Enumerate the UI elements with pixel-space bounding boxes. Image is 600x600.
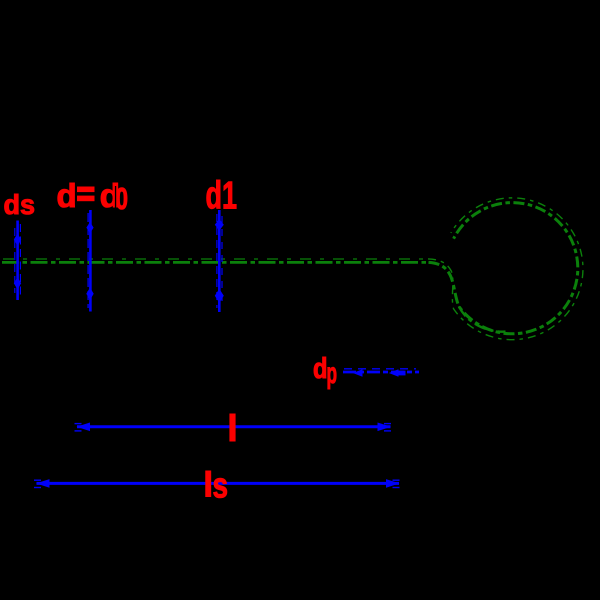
svg-text:d: d	[313, 353, 328, 385]
svg-text:0: 0	[116, 181, 129, 216]
dimension ls left arrow ticks	[34, 480, 41, 481]
dimension l left arrow ticks	[75, 423, 82, 424]
dimension d0 upper arrow	[86, 222, 93, 233]
loop entry curve overlap extension	[459, 306, 506, 331]
loop entry curve main	[429, 203, 578, 334]
svg-text:d1: d1	[206, 175, 238, 218]
dimension d0 line	[89, 210, 92, 312]
dimension dp right arrow	[389, 369, 399, 376]
dimension d1 line	[218, 210, 221, 312]
dimension d1 side dash right	[221, 216, 223, 306]
dimension dp right arrow tail	[398, 371, 406, 376]
dimension ds upper arrow	[14, 234, 21, 246]
label d = d0 : equals top bar	[77, 187, 95, 193]
dimension dp left arrow	[353, 369, 363, 376]
dimension d1 side dash left	[216, 214, 218, 308]
dimension ls line	[37, 482, 400, 485]
dimension l right arrow ticks	[384, 423, 391, 424]
dimension d0 side dash	[87, 213, 89, 308]
loop entry curve thin outer	[428, 198, 583, 340]
dimension ls right arrow ticks	[393, 480, 400, 481]
dimension l right arrow	[378, 423, 392, 432]
svg-text:s: s	[213, 465, 229, 506]
dimension ds line	[16, 221, 19, 301]
label d = d0 : equals bottom bar	[77, 196, 95, 202]
dimension d1 lower arrow	[215, 289, 224, 303]
dimension dp thin upper dash	[344, 368, 416, 370]
svg-text:d: d	[57, 177, 77, 214]
dimension ds side dash right	[19, 224, 21, 296]
svg-text:l: l	[227, 408, 237, 449]
label d0 separator	[115, 186, 116, 209]
dimension l line	[77, 425, 391, 428]
dimension l left arrow	[77, 423, 91, 432]
svg-text:ds: ds	[4, 189, 36, 220]
svg-text:p: p	[327, 357, 338, 390]
dimension ds lower arrow	[14, 277, 21, 289]
dimension ls left arrow	[36, 479, 50, 488]
centerline thin upper	[3, 258, 427, 260]
dimension d1 upper arrow	[215, 219, 224, 231]
dimension d0 lower arrow	[86, 288, 93, 301]
dimension dp line	[343, 371, 419, 374]
dimension ds side dash left	[14, 228, 16, 293]
dimension ls right arrow	[386, 479, 400, 488]
centerline main	[2, 261, 429, 264]
